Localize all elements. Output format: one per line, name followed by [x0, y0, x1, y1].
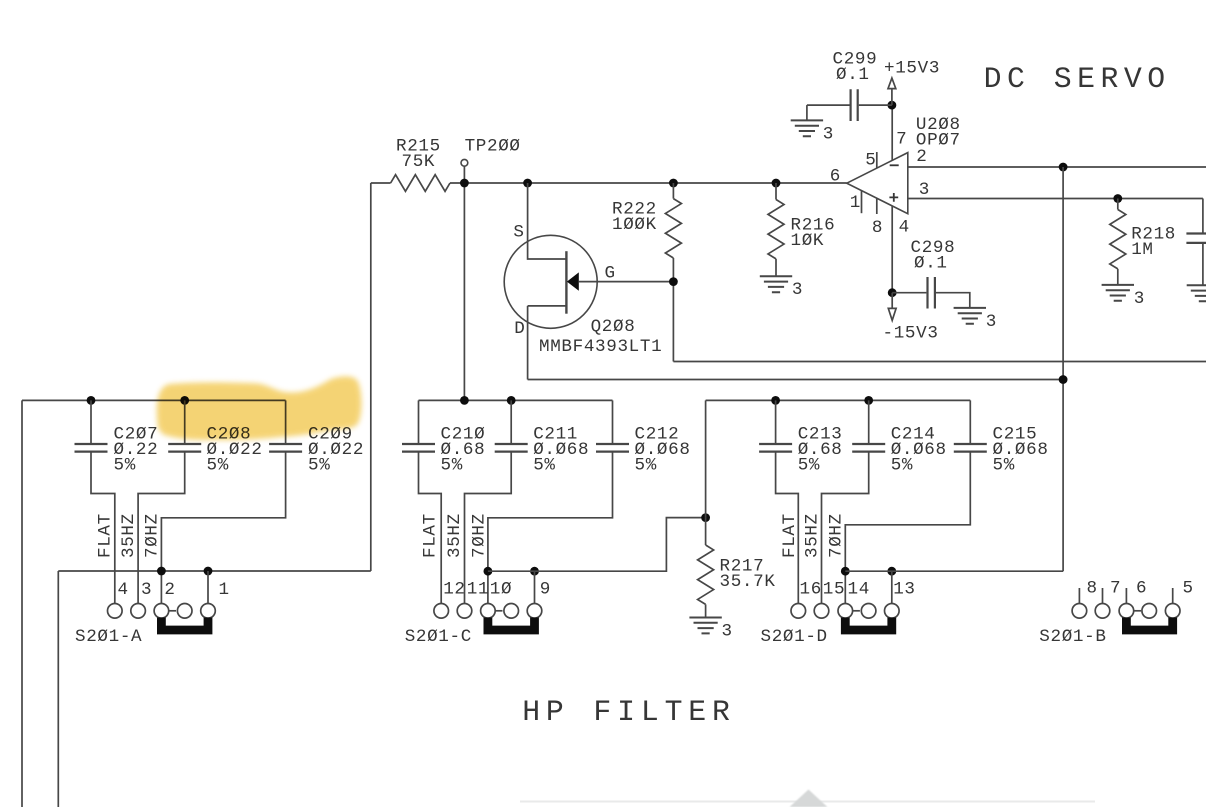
resistor R222: [665, 199, 681, 258]
wire C212 top lead: [612, 400, 614, 444]
label 35HZ C: [445, 513, 465, 558]
svg-text:5%: 5%: [441, 456, 463, 476]
ground edge capacitor: [1187, 285, 1206, 301]
wire U208 pin 7 to +15V3: [891, 105, 893, 160]
wire C214 bottom to pin 15: [822, 452, 869, 604]
wire C299 right lead: [859, 104, 892, 106]
label S201-C pin 12: [443, 580, 465, 600]
svg-text:DC SERVO: DC SERVO: [984, 62, 1171, 96]
label S201-D pin 14: [848, 580, 870, 600]
ground R217 label 3: [722, 621, 733, 641]
label R218 value: [1131, 240, 1153, 260]
svg-text:5: 5: [1183, 579, 1194, 599]
label S201-C pin 9: [540, 580, 551, 600]
svg-text:S2Ø1-D: S2Ø1-D: [761, 627, 828, 647]
label Q208 pin G: [605, 264, 616, 284]
switch S201-C contact 4: [504, 604, 519, 619]
label U208 pin 6: [830, 166, 841, 186]
label C215 tol: [993, 456, 1015, 476]
svg-text:5%: 5%: [533, 456, 555, 476]
junction C207 top: [87, 396, 96, 405]
wire C207 top lead: [90, 400, 92, 444]
label C214 tol: [891, 456, 913, 476]
label U208 pin 3: [919, 180, 930, 200]
label S201-B: [1039, 627, 1106, 647]
svg-text:3: 3: [1134, 289, 1145, 309]
wire C210 bottom to pin 12: [419, 452, 442, 604]
label C298: [911, 238, 956, 258]
junction Q208 source / main net: [523, 179, 532, 188]
label R222: [612, 199, 657, 219]
svg-text:1: 1: [850, 193, 861, 213]
resistor R215: [391, 175, 450, 192]
ground C299: [791, 120, 823, 136]
title HP FILTER: [522, 695, 736, 729]
label FLAT A: [95, 513, 115, 558]
svg-text:5%: 5%: [207, 456, 229, 476]
ground C298 label 3: [986, 312, 997, 332]
label C208 value: [207, 440, 263, 460]
wire C215 top lead: [969, 400, 971, 444]
wire bank D top rail: [706, 399, 971, 401]
svg-text:FLAT: FLAT: [421, 513, 441, 558]
ground R218 label 3: [1134, 289, 1145, 309]
wire U208 pin 3 net: [908, 198, 1203, 200]
label R217: [720, 557, 765, 577]
svg-text:13: 13: [893, 580, 915, 600]
junction C208 top: [180, 396, 189, 405]
label TP200: [465, 137, 521, 157]
resistor R217: [698, 545, 714, 604]
label S201-D pin 16: [800, 580, 822, 600]
wire R217 bottom lead: [705, 604, 707, 617]
junction TP200 / main net: [460, 179, 469, 188]
svg-text:MMBF4393LT1: MMBF4393LT1: [539, 337, 662, 357]
wire C298 right lead: [936, 293, 970, 308]
wire U208 pin 2 net: [908, 166, 1206, 168]
wire R218 bottom lead: [1117, 269, 1119, 285]
label 35HZ A: [119, 513, 139, 558]
svg-text:3: 3: [986, 312, 997, 332]
svg-text:7: 7: [1110, 579, 1121, 599]
label C214 value: [891, 440, 947, 460]
junction pin 10 / row C: [484, 567, 493, 576]
label C209: [308, 425, 353, 445]
junction R218 / pin3 net: [1113, 194, 1122, 203]
switch S201-A wiper dash: [169, 610, 176, 612]
wire gate node to right edge: [673, 361, 1206, 363]
switch S201-A contact 4: [177, 604, 192, 619]
wire drain node to right column: [528, 379, 1064, 381]
switch S201-B slider bracket: [1126, 618, 1172, 631]
svg-text:14: 14: [848, 580, 870, 600]
junction -15V3 node: [888, 288, 897, 297]
wire Q208 gate to R222: [579, 281, 674, 283]
label FLAT C: [421, 513, 441, 558]
label C210: [441, 425, 486, 445]
junction R217 top: [701, 513, 710, 522]
svg-text:HP FILTER: HP FILTER: [522, 695, 736, 729]
svg-text:5%: 5%: [308, 456, 330, 476]
capacitor C298: [928, 277, 935, 309]
label C213 value: [798, 440, 843, 460]
label Q208 pin S: [513, 223, 524, 243]
wire S201-B pin 6 stub: [1125, 588, 1127, 604]
wire R216 bottom lead: [775, 259, 777, 276]
svg-text:1ØØK: 1ØØK: [612, 215, 657, 235]
wire S201-B pin 7 stub: [1102, 588, 1104, 604]
label C207 value: [114, 440, 159, 460]
junction gate node: [669, 277, 678, 286]
svg-text:FLAT: FLAT: [95, 513, 115, 558]
label R216 value: [791, 231, 825, 251]
wire C208 bottom to pin 3: [138, 452, 185, 604]
label R215: [396, 137, 441, 157]
label C298 value: [914, 254, 948, 274]
svg-text:5%: 5%: [993, 456, 1015, 476]
wire R222 top lead: [672, 183, 674, 199]
bottom divider line artifact: [520, 801, 1095, 803]
wire main net to op-amp output: [450, 182, 847, 184]
label C210 tol: [441, 456, 463, 476]
label Q208 pin D: [514, 319, 525, 339]
svg-text:3: 3: [919, 180, 930, 200]
capacitor C208: [168, 444, 201, 452]
wire C211 top lead: [510, 400, 512, 444]
label C211: [533, 425, 578, 445]
svg-text:1M: 1M: [1131, 240, 1153, 260]
label Q208: [591, 317, 636, 337]
op-amp U208 plus input marker: [889, 193, 898, 202]
op-amp U208 minus input marker: [890, 164, 899, 166]
svg-text:+15V3: +15V3: [884, 59, 940, 79]
wire left drop 1: [21, 400, 23, 807]
wire C215 bottom to pin 14: [845, 452, 970, 604]
svg-text:S2Ø1-B: S2Ø1-B: [1039, 627, 1106, 647]
switch S201-B wiper dash: [1134, 610, 1141, 612]
switch S201-C contact 3: [481, 604, 496, 619]
svg-text:Q2Ø8: Q2Ø8: [591, 317, 636, 337]
capacitor C210: [402, 444, 435, 452]
svg-text:35HZ: 35HZ: [803, 513, 823, 558]
svg-text:35HZ: 35HZ: [445, 513, 465, 558]
switch S201-D contact 1: [791, 604, 806, 619]
power symbol +15V3 arrow: [888, 78, 896, 105]
label U208 pin 2: [916, 147, 927, 167]
label U208 pin 5: [865, 150, 876, 170]
label 70HZ A: [143, 513, 163, 558]
wire Q208 source lead: [528, 183, 567, 259]
label Q208 part number: [539, 337, 662, 357]
svg-text:5%: 5%: [891, 456, 913, 476]
svg-text:8: 8: [872, 218, 883, 238]
label C215: [993, 425, 1038, 445]
svg-text:5%: 5%: [635, 456, 657, 476]
svg-text:16: 16: [800, 580, 822, 600]
junction drain net / right column: [1059, 375, 1068, 384]
wire C211 bottom to pin 11: [465, 452, 512, 604]
label C207: [114, 425, 159, 445]
label 35HZ D: [803, 513, 823, 558]
bottom gray triangle artifact: [790, 790, 828, 807]
svg-text:2: 2: [164, 580, 175, 600]
label C215 value: [993, 440, 1049, 460]
svg-text:11: 11: [467, 580, 489, 600]
svg-text:5%: 5%: [114, 456, 136, 476]
wire C214 top lead: [868, 400, 870, 444]
svg-text:7ØHZ: 7ØHZ: [469, 513, 489, 558]
switch S201-C contact 2: [457, 604, 472, 619]
label C212 tol: [635, 456, 657, 476]
junction pin2 net / right column: [1059, 163, 1068, 172]
junction C211 top: [507, 396, 516, 405]
junction +15V3 node: [888, 101, 897, 110]
svg-text:7ØHZ: 7ØHZ: [827, 513, 847, 558]
label 70HZ C: [469, 513, 489, 558]
junction pin 1 / row A: [204, 567, 213, 576]
wire pin 1 stub A: [207, 571, 209, 604]
label S201-A pin 3: [141, 580, 152, 600]
label C208: [207, 425, 252, 445]
label S201-B pin 5: [1183, 579, 1194, 599]
switch S201-A contact 1: [108, 604, 123, 619]
label U208 pin 8: [872, 218, 883, 238]
label S201-C: [405, 627, 472, 647]
junction pin 9 / row C: [530, 567, 539, 576]
label S201-B pin 8: [1087, 579, 1098, 599]
annotation: yellow highlighter stroke: [157, 376, 362, 440]
wire C299 left lead: [807, 104, 851, 106]
wire bank A top rail: [22, 399, 286, 401]
capacitor at right edge (partial): [1186, 234, 1206, 243]
capacitor C209: [269, 444, 302, 452]
transistor Q208 channel bar: [565, 251, 567, 314]
switch S201-D contact 3: [838, 604, 853, 619]
svg-text:7: 7: [896, 130, 907, 150]
label U208: [916, 115, 961, 135]
label U208 pin 1: [850, 193, 861, 213]
wire S201-B pin 5 stub: [1172, 588, 1174, 604]
switch S201-A contact 2: [131, 604, 146, 619]
label S201-D pin 13: [893, 580, 915, 600]
transistor Q208 gate arrow: [567, 272, 579, 290]
resistor R218: [1110, 210, 1126, 269]
svg-text:TP2ØØ: TP2ØØ: [465, 137, 521, 157]
wire edge capacitor top lead: [1202, 199, 1204, 234]
ground C299 label 3: [823, 124, 834, 144]
label S201-A pin 2: [164, 580, 175, 600]
label S201-B pin 6: [1136, 579, 1147, 599]
svg-text:Ø.1: Ø.1: [836, 65, 870, 85]
wire R216 top lead: [775, 183, 777, 200]
wire C208 top lead: [184, 400, 186, 444]
junction R216 / main net: [772, 179, 781, 188]
wire bank C top rail: [419, 399, 613, 401]
svg-text:6: 6: [1136, 579, 1147, 599]
label C207 tol: [114, 456, 136, 476]
label R217 value: [720, 572, 776, 592]
svg-text:7ØHZ: 7ØHZ: [143, 513, 163, 558]
op-amp U208 triangle: [847, 153, 908, 214]
svg-text:15: 15: [823, 580, 845, 600]
svg-text:G: G: [605, 264, 616, 284]
wire Q208 drain lead: [528, 305, 567, 307]
junction pin 14 / row D: [841, 567, 850, 576]
wire C298 left lead: [892, 292, 926, 294]
svg-text:S2Ø1-A: S2Ø1-A: [75, 627, 142, 647]
label R218: [1131, 224, 1176, 244]
label C211 tol: [533, 456, 555, 476]
label R215 value: [402, 152, 436, 172]
wire left drop 2: [57, 571, 59, 807]
wire S201-B pin 8 stub: [1078, 588, 1080, 604]
svg-text:9: 9: [540, 580, 551, 600]
label C299 value: [836, 65, 870, 85]
label U208 part: [916, 131, 961, 151]
wire pin 13 stub D: [891, 571, 893, 603]
label S201-C pin 11: [467, 580, 489, 600]
wire C209 bottom to pin 2: [161, 452, 285, 604]
junction R222 / main net: [669, 179, 678, 188]
switch S201-C contact 5: [527, 604, 542, 619]
junction TP200 column / rail C: [460, 396, 469, 405]
switch S201-B contact 3: [1119, 604, 1134, 619]
switch S201-B contact 5: [1165, 604, 1180, 619]
junction C213 top: [771, 396, 780, 405]
switch S201-B contact 2: [1095, 604, 1110, 619]
capacitor C212: [596, 444, 629, 452]
label C212: [635, 425, 680, 445]
wire C299 ground drop: [806, 105, 808, 120]
wire S201-A row: [58, 570, 371, 572]
svg-text:FLAT: FLAT: [780, 513, 800, 558]
junction pin 13 / row D: [887, 567, 896, 576]
label S201-D: [761, 627, 828, 647]
label S201-A pin 4: [118, 580, 129, 600]
wire C212 bottom to pin 10: [488, 452, 613, 604]
svg-text:5%: 5%: [798, 456, 820, 476]
switch S201-B contact 1: [1072, 604, 1087, 619]
capacitor C215: [954, 444, 987, 452]
wire row D to right column: [845, 570, 1063, 572]
label R222 value: [612, 215, 657, 235]
wire row C to R217: [488, 518, 706, 572]
wire main net left lead: [371, 182, 391, 184]
label C299: [833, 50, 878, 70]
capacitor C211: [495, 444, 528, 452]
switch S201-C wiper dash: [495, 610, 502, 612]
switch S201-A contact 3: [154, 604, 169, 619]
switch S201-C contact 1: [434, 604, 449, 619]
wire edge capacitor bottom lead: [1202, 243, 1204, 285]
switch S201-A contact 5: [201, 604, 216, 619]
wire R217 top lead: [705, 518, 707, 545]
label S201-A: [75, 627, 142, 647]
label C209 value: [308, 440, 364, 460]
svg-text:12: 12: [443, 580, 465, 600]
svg-text:3: 3: [792, 280, 803, 300]
svg-text:6: 6: [830, 166, 841, 186]
switch S201-D contact 4: [861, 604, 876, 619]
svg-text:D: D: [514, 319, 525, 339]
svg-text:75K: 75K: [402, 152, 436, 172]
label C211 value: [533, 440, 589, 460]
label C209 tol: [308, 456, 330, 476]
label C214: [891, 425, 936, 445]
wire C207 bottom to pin 4: [91, 452, 115, 604]
power symbol -15V3 arrow: [888, 293, 896, 321]
svg-text:S: S: [513, 223, 524, 243]
switch S201-D slider bracket: [845, 618, 892, 631]
svg-text:1Ø: 1Ø: [490, 580, 512, 600]
label R216: [791, 215, 836, 235]
testpoint TP200: [461, 159, 468, 166]
wire U208 pin 4 to -15V3: [891, 206, 893, 293]
svg-text:35.7K: 35.7K: [720, 572, 776, 592]
label S201-B pin 7: [1110, 579, 1121, 599]
label S201-D pin 15: [823, 580, 845, 600]
title DC SERVO: [984, 62, 1171, 96]
label 70HZ D: [827, 513, 847, 558]
svg-text:3: 3: [823, 124, 834, 144]
wire R222 bottom / gate node drop: [672, 258, 674, 362]
label C210 value: [441, 440, 486, 460]
wire pin 9 stub C: [534, 571, 536, 603]
label S201-A pin 1: [219, 580, 230, 600]
op-amp U208 pin 5 stub: [876, 152, 878, 168]
wire R218 top lead: [1117, 199, 1119, 210]
label C208 tol: [207, 456, 229, 476]
label FLAT D: [780, 513, 800, 558]
svg-text:S2Ø1-C: S2Ø1-C: [405, 627, 472, 647]
capacitor C213: [759, 444, 792, 452]
wire TP200 column to C-bank rail: [463, 166, 465, 400]
junction C214 top: [864, 396, 873, 405]
wire C213 top lead: [775, 400, 777, 444]
label U208 pin 7: [896, 130, 907, 150]
svg-text:OPØ7: OPØ7: [916, 131, 961, 151]
wire Q208 drain drop: [527, 306, 529, 380]
label S201-C pin 10: [490, 580, 512, 600]
switch S201-D contact 5: [885, 604, 900, 619]
capacitor C214: [852, 444, 885, 452]
resistor R216: [768, 200, 784, 259]
ground R217: [689, 618, 721, 634]
label C212 value: [635, 440, 691, 460]
svg-text:8: 8: [1087, 579, 1098, 599]
label -15V3: [883, 324, 939, 344]
label +15V3: [884, 59, 940, 79]
ground R216: [760, 276, 792, 292]
svg-text:1ØK: 1ØK: [791, 231, 825, 251]
capacitor C299: [851, 89, 858, 121]
switch S201-C slider bracket: [488, 618, 535, 631]
svg-text:4: 4: [118, 580, 129, 600]
capacitor C207: [75, 444, 108, 452]
ground R216 label 3: [792, 280, 803, 300]
svg-text:3: 3: [722, 621, 733, 641]
wire right column: [1062, 167, 1064, 571]
switch S201-B contact 4: [1142, 604, 1157, 619]
switch S201-D wiper dash: [853, 610, 860, 612]
svg-text:-15V3: -15V3: [883, 324, 939, 344]
svg-text:Ø.1: Ø.1: [914, 254, 948, 274]
svg-text:1: 1: [219, 580, 230, 600]
ground R218: [1102, 285, 1134, 301]
wire C209 top lead: [285, 400, 287, 444]
transistor Q208 body circle: [504, 235, 597, 328]
label C213: [798, 425, 843, 445]
